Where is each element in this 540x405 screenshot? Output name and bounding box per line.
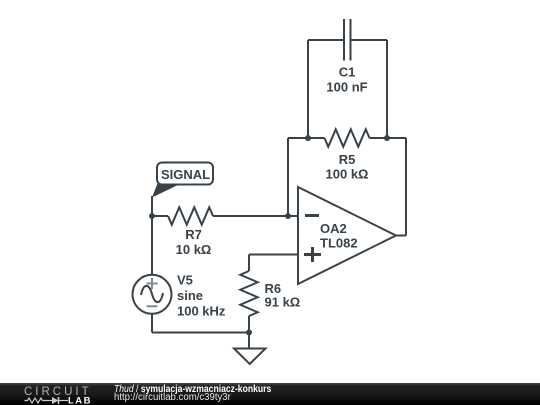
- svg-text:TL082: TL082: [320, 236, 358, 251]
- svg-text:10 kΩ: 10 kΩ: [176, 242, 212, 257]
- svg-text:OA2: OA2: [320, 221, 347, 236]
- svg-text:R7: R7: [185, 227, 202, 242]
- svg-text:C1: C1: [339, 65, 356, 80]
- svg-text:sine: sine: [177, 288, 203, 303]
- svg-text:91 kΩ: 91 kΩ: [265, 295, 301, 310]
- svg-text:100 nF: 100 nF: [326, 80, 367, 95]
- svg-text:V5: V5: [177, 273, 193, 288]
- svg-text:100 kΩ: 100 kΩ: [326, 167, 369, 182]
- svg-text:100 kHz: 100 kHz: [177, 304, 226, 319]
- svg-text:R5: R5: [339, 152, 356, 167]
- svg-text:SIGNAL: SIGNAL: [161, 167, 210, 182]
- svg-text:LAB: LAB: [68, 396, 92, 405]
